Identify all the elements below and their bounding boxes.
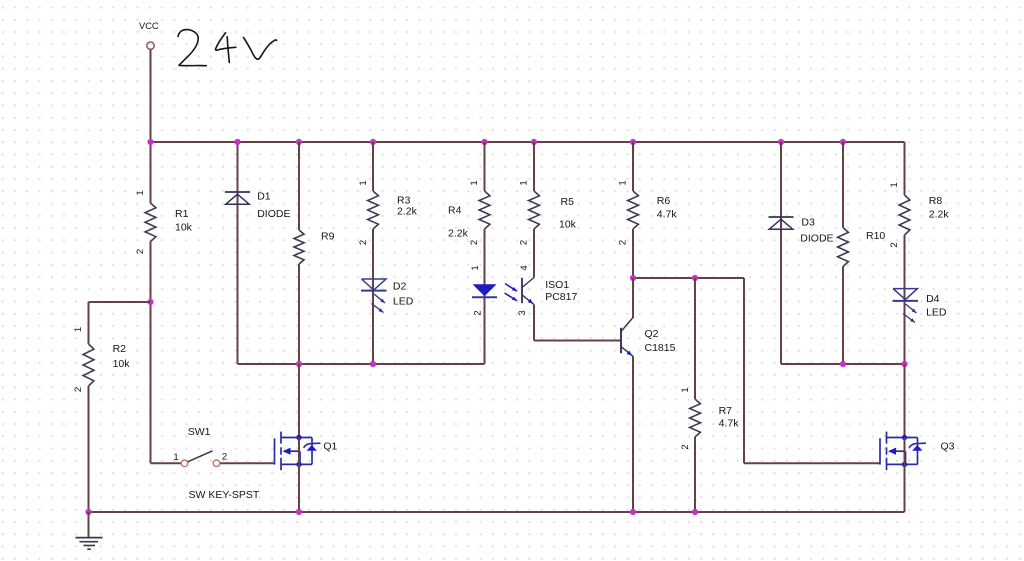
svg-text:4: 4 [519,265,530,270]
junction top bus / D1 [234,139,240,145]
svg-text:Q3: Q3 [941,441,955,453]
svg-text:1: 1 [680,387,691,392]
svg-text:4.7k: 4.7k [657,209,678,221]
svg-text:4.7k: 4.7k [719,418,740,430]
svg-text:2.2k: 2.2k [397,206,418,218]
svg-text:2: 2 [73,387,84,392]
svg-text:LED: LED [926,307,947,319]
junction bottom bus / Q2 [630,509,636,515]
diode D3 [769,142,794,364]
svg-text:R6: R6 [657,195,671,207]
resistor R3 [368,142,379,279]
optocoupler ISO1 phototransistor [522,278,534,305]
svg-text:PC817: PC817 [545,291,577,303]
svg-text:R10: R10 [866,230,885,242]
junction bottom bus / Q1 [296,509,302,515]
svg-text:R8: R8 [929,195,943,207]
resistor R7 [690,278,701,512]
svg-text:R5: R5 [561,196,575,208]
resistor R8 [899,142,910,289]
svg-text:1: 1 [135,190,146,195]
wire mid rail left [238,363,485,365]
resistor R6 [628,142,639,278]
resistor R4 [479,142,490,284]
svg-text:R4: R4 [448,205,462,217]
svg-text:2: 2 [358,240,369,245]
wire Q2 collector node [633,277,744,279]
svg-text:SW1: SW1 [188,426,211,438]
junction mid rail / R10 [840,361,846,367]
svg-text:10k: 10k [559,219,577,231]
LED D2 [361,279,387,364]
LED D4 [893,289,919,364]
svg-text:1: 1 [173,452,178,463]
svg-text:3: 3 [517,310,528,315]
resistor R2 [83,302,94,512]
mosfet Q1 [275,432,321,471]
svg-text:2: 2 [469,240,480,245]
svg-text:DIODE: DIODE [800,233,833,245]
wire mid rail right [781,363,905,365]
svg-text:1: 1 [889,182,900,187]
junction top bus / R9 [296,139,302,145]
junction top bus / R5 [531,139,537,145]
resistor R9 [294,142,304,364]
junction R7 top [692,275,698,281]
wire Q3 to bottom bus [904,438,906,513]
wire Q1 to bottom bus [298,438,300,513]
junction bottom bus / R7 [692,509,698,515]
svg-text:2: 2 [135,249,146,254]
optocoupler ISO1 LED [472,284,497,364]
junction mid rail / D2 [370,361,376,367]
handwritten 24V annotation [178,30,277,66]
junction R1/R2/SW1 [147,299,153,305]
wire to R2 [89,301,151,303]
svg-text:1: 1 [469,180,480,185]
svg-text:LED: LED [393,296,414,308]
ISO1 light arrows [505,284,518,301]
wire VCC to top bus [150,49,152,142]
junction top bus / R6 [630,139,636,145]
svg-text:SW KEY-SPST: SW KEY-SPST [189,489,260,501]
junction top bus / R1 [147,139,153,145]
junction bottom bus / ground [85,509,91,515]
svg-text:2.2k: 2.2k [448,228,469,240]
svg-text:D3: D3 [801,217,815,229]
wire top bus [151,141,905,143]
wire ISO1 emitter to Q2 base [534,305,621,341]
svg-text:R9: R9 [321,231,335,243]
svg-text:10k: 10k [113,358,131,370]
wire Q2 node to Q3 gate [744,278,880,463]
svg-text:D2: D2 [393,281,407,293]
svg-text:R2: R2 [113,343,127,355]
junction top bus / R10 [840,139,846,145]
junction top bus / R4 [481,139,487,145]
svg-text:2.2k: 2.2k [929,209,950,221]
svg-text:D1: D1 [257,191,271,203]
diode D1 [225,142,250,364]
svg-text:ISO1: ISO1 [545,279,569,291]
junction R6/Q2 collector [630,275,636,281]
svg-text:1: 1 [73,327,84,332]
svg-text:2: 2 [618,240,629,245]
svg-text:Q2: Q2 [645,328,659,340]
svg-text:DIODE: DIODE [257,208,290,220]
svg-text:1: 1 [519,180,530,185]
wire R9 to Q1 drain [298,364,300,438]
svg-text:R7: R7 [719,405,733,417]
resistor R10 [838,142,849,364]
svg-text:1: 1 [358,180,369,185]
svg-text:2: 2 [473,310,484,315]
wire Q2 emitter to bottom bus [632,356,634,512]
svg-text:2: 2 [889,242,900,247]
svg-text:C1815: C1815 [645,342,676,354]
switch SW1 [151,451,275,467]
svg-text:VCC: VCC [139,21,159,31]
svg-text:Q1: Q1 [323,441,337,453]
wire R1 to R2 branch [150,302,152,463]
svg-text:R1: R1 [175,208,189,220]
svg-text:10k: 10k [175,222,193,234]
resistor R1 [145,142,156,302]
svg-text:1: 1 [618,180,629,185]
junction top bus / D3 [778,139,784,145]
svg-text:2: 2 [680,444,691,449]
svg-text:2: 2 [519,240,530,245]
svg-text:2: 2 [222,452,227,463]
wire D4 to Q3 drain [904,364,906,438]
wire bottom bus [89,511,905,513]
junction mid rail / D4 Q3 [901,361,907,367]
ground [76,512,103,549]
junction top bus / R3 [370,139,376,145]
junction mid rail / R9 [296,361,302,367]
svg-text:1: 1 [470,265,481,270]
resistor R5 [529,142,540,278]
power port VCC [139,21,159,49]
mosfet Q3 [880,432,926,471]
transistor Q2 [621,278,633,356]
svg-text:D4: D4 [926,293,940,305]
